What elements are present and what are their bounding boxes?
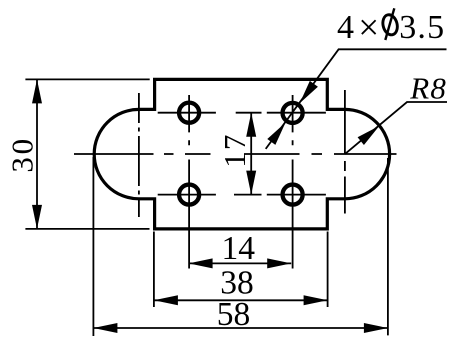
hole bottom-left [179, 185, 199, 205]
arrow 38 left [154, 295, 178, 305]
arrow phi upper [296, 81, 318, 106]
arrow 14 left [189, 258, 213, 268]
hole bottom-right [283, 185, 303, 205]
arrow 58 right [364, 323, 388, 333]
dimension 38 line [154, 299, 328, 301]
dimension 30 line [36, 79, 38, 229]
arrow 17 bottom [246, 171, 256, 195]
arrow 30 bottom [32, 205, 42, 229]
svg-text:4×: 4× [337, 8, 379, 49]
arrow 38 right [304, 295, 328, 305]
arrow 30 top [32, 79, 42, 103]
arrow R8 [358, 122, 383, 145]
bottom hole row centerline [158, 194, 326, 196]
main horizontal centerline [74, 153, 397, 155]
arrow 14 right [267, 258, 291, 268]
svg-text:3.5: 3.5 [399, 9, 445, 46]
svg-text:58: 58 [217, 296, 251, 333]
svg-text:30: 30 [5, 136, 40, 173]
svg-text:17: 17 [217, 132, 252, 167]
dimension 58 line [93, 327, 388, 329]
hole top-left [179, 103, 199, 123]
svg-text:14: 14 [222, 230, 256, 267]
dimension 58 extension lines [93, 157, 388, 336]
right arc vertical centerline [344, 90, 346, 214]
hole top-right [283, 103, 303, 123]
leader R8 [345, 102, 447, 154]
arrow phi lower [267, 120, 289, 145]
dimension 30 extension lines [25, 79, 149, 229]
dimension 38 extension lines [154, 232, 328, 308]
left hole column centerline [188, 95, 190, 269]
part outline [94, 79, 389, 229]
arrow 17 top [246, 113, 256, 137]
dimension 14 line [189, 262, 292, 264]
leader 4xphi3.5 [266, 49, 447, 149]
dimension 17 line [250, 113, 252, 195]
arrow 58 left [93, 323, 117, 333]
label phi glyph [381, 8, 400, 40]
right hole column centerline [292, 95, 294, 269]
svg-text:R8: R8 [409, 71, 447, 106]
left arc vertical centerline [138, 93, 140, 217]
top hole row centerline [158, 112, 326, 114]
